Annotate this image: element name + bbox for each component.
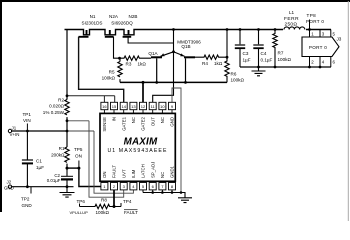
transistor Q1A [151,56,162,58]
port pin 5 [330,30,332,38]
svg-text:PORT 0: PORT 0 [309,45,327,50]
wire fault drop [113,190,115,207]
svg-text:SI6926DQ: SI6926DQ [111,21,133,26]
border frame right [348,1,349,221]
svg-text:U1 MAX5943AEEE: U1 MAX5943AEEE [107,148,167,154]
wire N1 gate staircase to GATE1 [79,37,124,103]
svg-text:TP8: TP8 [307,13,317,18]
test point TP1 [26,124,28,132]
svg-text:NC: NC [160,117,165,123]
wire ic gnd stubs [143,190,172,193]
transistor Q1B [184,56,195,58]
svg-text:FAULT: FAULT [124,210,138,215]
svg-text:2: 2 [311,60,314,65]
wire R4 riser to rail [226,30,228,58]
test point TP6 [79,204,81,207]
svg-text:R2: R2 [58,98,64,103]
svg-text:LATCH: LATCH [141,164,146,178]
svg-text:200kΩ: 200kΩ [51,152,65,157]
port pin 3 [319,30,321,38]
wire R1 to TP5 node [67,167,79,169]
svg-text:14: 14 [121,104,126,109]
op IC U1 body [100,113,175,181]
resistor R3 [120,56,152,60]
test point TP4 [120,203,122,207]
port pin 2 [309,57,311,68]
ground under C2 [60,187,75,197]
svg-text:0.1µF: 0.1µF [261,57,273,62]
port pin 1 [309,30,311,38]
svg-text:5: 5 [333,31,336,36]
svg-text:1kΩ: 1kΩ [138,61,147,66]
svg-text:11: 11 [151,104,156,109]
port pin 4 [319,57,321,68]
svg-text:R6: R6 [231,72,237,77]
wire bottom gnd bus [143,193,185,198]
svg-text:10: 10 [160,104,165,109]
ic bottom pin boxes [101,183,176,190]
svg-text:15: 15 [112,104,117,109]
svg-text:J3: J3 [337,37,342,42]
resistor R5 [118,58,122,82]
svg-text:6: 6 [333,60,336,65]
svg-text:ON: ON [102,172,107,178]
svg-text:R7: R7 [278,51,284,56]
svg-text:C4: C4 [261,51,267,56]
mosfet N2B [123,30,132,37]
ic top pin numbers [102,104,174,109]
resistor R2 [65,100,69,115]
svg-text:12: 12 [141,104,146,109]
svg-text:5: 5 [142,184,145,189]
svg-text:0.01µF: 0.01µF [47,178,61,183]
svg-text:SI2301DS: SI2301DS [82,21,103,26]
test point TP5 ON [78,161,80,169]
svg-text:NC: NC [160,172,165,178]
svg-text:100kΩ: 100kΩ [96,210,110,215]
svg-text:C1: C1 [36,159,42,164]
test point TP2 [30,187,32,194]
svg-text:MMDT3906: MMDT3906 [177,40,201,45]
connector J1 [8,129,11,132]
svg-text:8: 8 [171,184,174,189]
svg-text:N1: N1 [90,14,96,19]
svg-text:Q1A: Q1A [148,51,158,56]
svg-text:1µF: 1µF [243,57,251,62]
svg-text:ILIM: ILIM [131,169,136,178]
svg-text:2: 2 [113,184,116,189]
capacitor C1 [26,131,28,187]
svg-text:1% 0.25W: 1% 0.25W [43,110,65,115]
ic top pin names [102,116,175,131]
wire common emitter riser [153,30,174,103]
svg-text:TP2: TP2 [21,197,30,202]
connector J3 PORT0 [302,37,339,57]
svg-text:J2: J2 [7,180,12,185]
svg-text:TP6: TP6 [77,199,86,204]
svg-text:3: 3 [123,184,126,189]
svg-text:GND1: GND1 [170,165,175,178]
wire N2B gate [128,37,173,43]
svg-text:0.020Ω: 0.020Ω [49,103,64,108]
svg-text:250Ω: 250Ω [285,22,298,28]
svg-text:1: 1 [311,31,314,36]
svg-text:100kΩ: 100kΩ [231,78,245,83]
border frame top [0,0,350,2]
svg-text:FAULT: FAULT [112,165,117,178]
svg-text:VIN: VIN [23,118,31,123]
wire N2A gate [114,37,120,58]
capacitor C3 [239,30,241,68]
svg-text:UVT: UVT [121,169,126,178]
svg-text:7: 7 [161,184,164,189]
svg-text:TP1: TP1 [23,112,32,117]
capacitor C2 [66,168,68,187]
svg-text:MAXIM: MAXIM [124,137,158,148]
svg-text:16: 16 [102,104,107,109]
svg-text:Q1B: Q1B [181,44,190,49]
resistor R4 [195,55,227,59]
wire J2 GND [11,186,74,188]
svg-text:SENSE: SENSE [102,117,107,132]
wire ON pin route [79,168,101,186]
svg-text:N2A: N2A [109,14,119,19]
ground bottom right [178,198,192,203]
svg-text:PORT 0: PORT 0 [306,19,324,24]
test point TP8 [309,20,311,30]
resistor R1 [65,147,69,162]
wire J1 VIN [11,130,67,132]
svg-text:100kΩ: 100kΩ [278,57,292,62]
svg-text:9: 9 [171,104,174,109]
svg-text:SP_ADJ: SP_ADJ [150,162,155,178]
svg-text:R8: R8 [101,198,107,203]
svg-text:1µF: 1µF [36,165,44,170]
wire vin tap route [67,131,133,193]
wire GATE2 pin drop [142,82,144,102]
svg-text:VPULLUP: VPULLUP [70,210,89,215]
svg-text:NC: NC [131,117,136,123]
wire sense tap lower [67,121,124,197]
svg-text:4: 4 [322,60,325,65]
svg-text:GND: GND [22,203,33,208]
top gnd pin route [172,88,181,193]
wire input riser [66,30,68,169]
inductor L1 ferrite [283,25,306,34]
svg-text:N2B: N2B [129,14,138,19]
svg-text:1kΩ: 1kΩ [214,61,223,66]
resistor R8 [80,204,122,208]
svg-text:3: 3 [322,31,325,36]
ic bottom pin numbers [103,184,174,189]
ic bottom pin names [102,162,175,178]
svg-text:4: 4 [132,184,135,189]
svg-text:R1: R1 [59,146,65,151]
svg-text:GND: GND [170,117,175,127]
svg-text:L1: L1 [289,10,295,15]
svg-text:OUT: OUT [150,117,155,126]
svg-text:100kΩ: 100kΩ [102,76,116,81]
svg-text:R5: R5 [109,70,115,75]
svg-text:C3: C3 [243,51,249,56]
capacitor C4 [258,30,260,68]
border frame left [0,0,2,212]
svg-text:ON: ON [75,154,82,159]
svg-text:GATE1: GATE1 [121,116,126,130]
svg-text:R3: R3 [126,61,132,66]
connector J2 [8,185,11,188]
svg-text:1: 1 [103,184,106,189]
ground symbol under C4 [252,67,266,76]
svg-text:V+IN: V+IN [10,132,20,137]
svg-text:IN: IN [112,117,117,121]
resistor R7 [273,30,277,68]
port pin 6 [330,57,332,68]
svg-text:TP5: TP5 [74,147,83,152]
wire top rail [65,30,332,35]
mosfet N2A [105,30,114,37]
resistor R6 [225,57,229,82]
mosfet N1 [79,30,89,37]
svg-text:GND: GND [4,186,14,191]
wire sense tap upper [67,96,115,103]
svg-text:6: 6 [152,184,155,189]
svg-text:GATE2: GATE2 [141,116,146,130]
wire gate2 bus (wire A) [120,81,227,83]
svg-text:13: 13 [131,104,136,109]
ground bus under C3 C4 R7 [240,66,331,68]
ic top pin boxes [101,102,176,109]
ic top pin stubs [104,110,172,114]
svg-text:J1: J1 [12,126,17,131]
svg-text:R4: R4 [202,61,208,66]
svg-text:TP4: TP4 [123,199,132,204]
svg-text:FERR: FERR [284,16,299,22]
